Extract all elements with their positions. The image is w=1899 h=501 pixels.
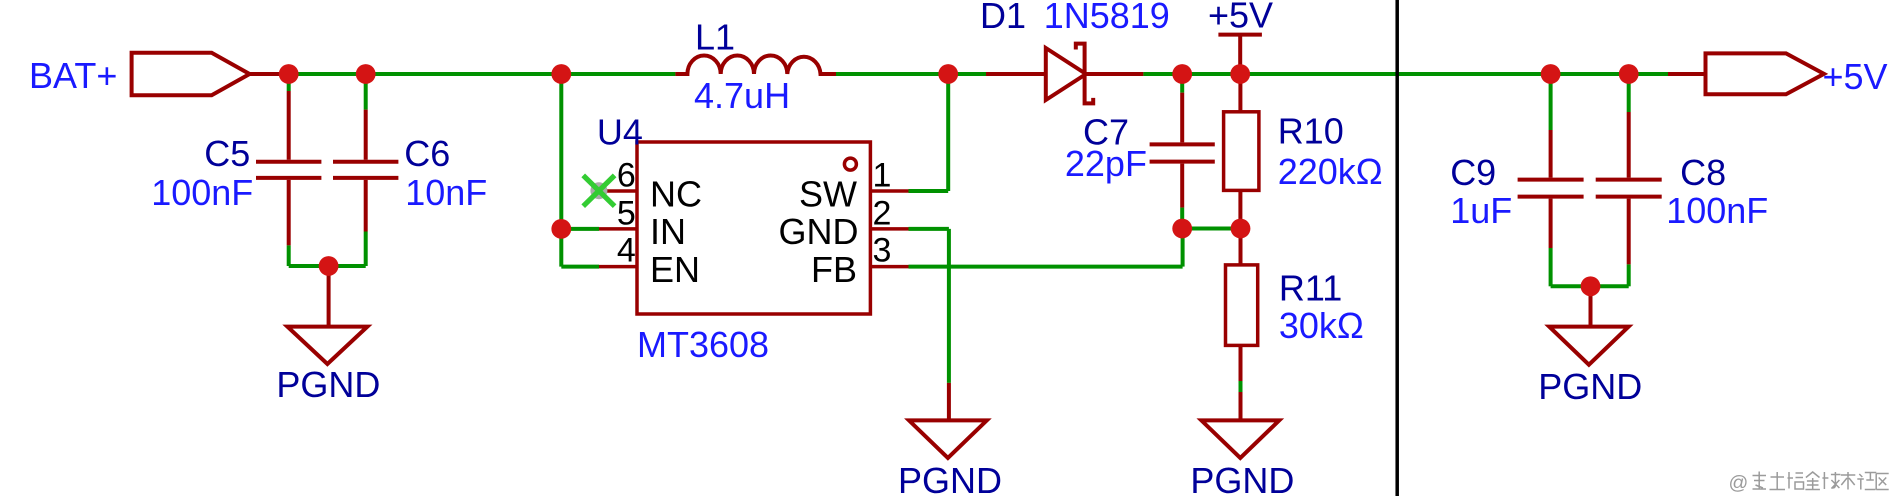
svg-text:1N5819: 1N5819	[1044, 0, 1170, 36]
wire GND horizontal	[909, 227, 949, 231]
resistor R11	[1226, 265, 1258, 346]
svg-text:C9: C9	[1450, 152, 1496, 193]
svg-text:NC: NC	[650, 173, 702, 214]
svg-text:R10: R10	[1278, 110, 1344, 151]
port +5V	[1706, 53, 1825, 94]
wire to pin4	[561, 265, 599, 269]
wire U4 IN vertical	[559, 74, 563, 267]
node junction J7	[1541, 64, 1561, 84]
svg-text:R11: R11	[1279, 268, 1342, 309]
svg-text:U4: U4	[597, 112, 643, 153]
svg-text:1: 1	[873, 157, 892, 195]
wire C5 C6 bottom joining	[289, 264, 366, 268]
pin 1 stub	[870, 189, 908, 193]
svg-text:+5V: +5V	[1208, 0, 1273, 36]
node junction J2	[356, 64, 376, 84]
port BAT+	[132, 53, 250, 96]
diode D1 anode wire	[986, 72, 1046, 76]
svg-text:+5V: +5V	[1823, 56, 1888, 97]
svg-text:EN: EN	[650, 249, 700, 290]
pin 2 stub	[870, 227, 908, 231]
svg-text:D1: D1	[980, 0, 1026, 36]
wire C6 top green stub	[364, 74, 368, 110]
ground PGND r11 symbol	[1201, 420, 1279, 458]
wire C9 top green stub	[1549, 74, 1553, 130]
wire FB riser	[1181, 229, 1185, 267]
svg-text:6: 6	[617, 157, 636, 195]
node junction J13	[1581, 276, 1601, 296]
ground PGND right symbol	[1549, 327, 1628, 365]
wire C7 bottom green stub	[1180, 208, 1184, 229]
wire PGND r11 stub	[1239, 392, 1243, 420]
node junction J8	[1619, 64, 1639, 84]
node junction J10	[551, 219, 571, 239]
capacitor C8	[1596, 112, 1662, 264]
svg-text:PGND: PGND	[1538, 366, 1642, 407]
svg-text:1uF: 1uF	[1450, 190, 1512, 231]
wire BAT+ pin to junction	[250, 72, 292, 76]
wire SW riser	[946, 74, 950, 191]
node junction J6	[1230, 64, 1250, 84]
wire C6 bottom green stub	[364, 232, 368, 267]
svg-text:10nF: 10nF	[405, 172, 487, 213]
node junction J1	[279, 64, 299, 84]
svg-text:30kΩ: 30kΩ	[1279, 305, 1364, 346]
svg-text:MT3608: MT3608	[637, 324, 769, 365]
IC U4 MT3608 body	[637, 142, 870, 314]
wire R11 green remnant	[1239, 381, 1243, 392]
wire PGND left stub	[327, 266, 331, 327]
resistor R10 top lead	[1238, 74, 1242, 112]
svg-text:220kΩ: 220kΩ	[1278, 151, 1383, 192]
svg-text:SW: SW	[799, 173, 857, 214]
svg-text:FB: FB	[811, 249, 857, 290]
svg-text:PGND: PGND	[276, 364, 380, 405]
svg-text:L1: L1	[695, 17, 735, 58]
svg-text:22pF: 22pF	[1065, 143, 1147, 184]
wire GND drop	[947, 229, 951, 383]
wire C9 bottom green stub	[1549, 248, 1553, 286]
node junction J4	[938, 64, 958, 84]
svg-text:BAT+: BAT+	[29, 55, 117, 96]
wire to pin5	[561, 227, 599, 231]
svg-text:4.7uH: 4.7uH	[694, 75, 790, 116]
capacitor C5	[256, 91, 321, 245]
resistor R10	[1224, 112, 1259, 191]
pin 5 stub	[599, 227, 637, 231]
wire C8 top green stub	[1627, 74, 1631, 112]
pin 3 stub	[870, 265, 908, 269]
svg-text:100nF: 100nF	[151, 172, 253, 213]
wire L1 to diode junction	[836, 72, 986, 76]
resistor R10 bottom lead	[1238, 190, 1242, 228]
wire diode cathode	[1086, 72, 1143, 76]
wire C8 bottom green stub	[1627, 264, 1631, 286]
svg-text:3: 3	[873, 232, 892, 270]
node junction J9	[319, 256, 339, 276]
svg-text:5: 5	[617, 194, 636, 232]
capacitor C7	[1150, 93, 1215, 208]
U4 polarity circle	[844, 158, 856, 170]
svg-text:100nF: 100nF	[1666, 190, 1768, 231]
diode D1	[1046, 44, 1093, 104]
wire feedback node horizontal	[1182, 227, 1240, 231]
svg-text:@: @	[1729, 472, 1749, 494]
svg-text:IN: IN	[650, 211, 686, 252]
watermark	[1729, 472, 1749, 494]
wire main BAT+ net top	[289, 72, 676, 76]
wire to +5V port	[1668, 72, 1706, 76]
node junction J12	[1231, 219, 1251, 239]
resistor R11 top lead	[1239, 229, 1243, 265]
svg-text:GND: GND	[779, 211, 859, 252]
svg-text:C6: C6	[404, 133, 450, 174]
node junction J3	[551, 64, 571, 84]
svg-text:PGND: PGND	[898, 460, 1002, 496]
wire cathode to +5V rail	[1143, 72, 1668, 76]
no-connect cross pin6	[583, 175, 614, 206]
resistor R11 bottom lead	[1239, 345, 1243, 381]
pin 6 stub	[599, 189, 637, 193]
capacitor C9	[1518, 130, 1584, 248]
svg-text:C5: C5	[204, 133, 250, 174]
wire PGND right stub	[1589, 286, 1593, 326]
node junction J5	[1172, 64, 1192, 84]
wire PGND middle stub	[947, 383, 951, 421]
divider line	[1395, 0, 1399, 496]
wire C9 C8 bottom joining	[1551, 284, 1629, 288]
ground PGND left symbol	[287, 327, 367, 364]
power +5V symbol	[1218, 35, 1262, 74]
svg-text:PGND: PGND	[1190, 460, 1294, 496]
wire C5 bottom green stub	[287, 245, 291, 266]
wire SW horizontal	[909, 189, 949, 193]
node junction J11	[1172, 219, 1192, 239]
svg-text:4: 4	[617, 232, 636, 270]
svg-text:C8: C8	[1680, 152, 1726, 193]
inductor L1	[675, 55, 836, 74]
ground PGND middle symbol	[909, 420, 987, 458]
capacitor C6	[333, 110, 398, 232]
svg-text:2: 2	[873, 194, 892, 232]
wire FB horizontal	[909, 265, 1183, 269]
wire C7 top green stub	[1180, 74, 1184, 93]
pin 4 stub	[599, 265, 637, 269]
wire C5 top green stub	[287, 74, 291, 91]
